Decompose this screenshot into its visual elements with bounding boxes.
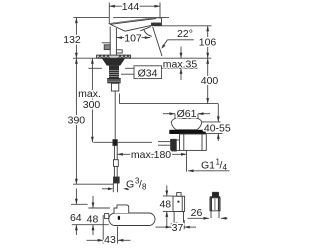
svg-text:37: 37 <box>172 222 184 234</box>
svg-text:Ø34: Ø34 <box>138 67 158 79</box>
svg-text:400: 400 <box>201 75 219 87</box>
svg-text:4: 4 <box>223 163 228 172</box>
svg-text:390: 390 <box>68 114 86 126</box>
svg-text:43: 43 <box>104 234 116 246</box>
svg-text:144: 144 <box>122 1 140 13</box>
svg-text:22°: 22° <box>177 28 193 40</box>
svg-text:8: 8 <box>142 183 147 192</box>
svg-text:132: 132 <box>63 34 81 46</box>
svg-text:max.180: max.180 <box>131 149 171 161</box>
svg-text:40-55: 40-55 <box>204 123 231 135</box>
svg-text:300: 300 <box>83 99 101 111</box>
svg-text:48: 48 <box>87 214 99 226</box>
svg-text:106: 106 <box>199 37 217 49</box>
svg-text:G1: G1 <box>201 160 215 172</box>
svg-text:64: 64 <box>70 212 82 224</box>
svg-text:48: 48 <box>159 199 171 211</box>
svg-text:G: G <box>126 179 134 191</box>
svg-text:max.35: max.35 <box>163 58 198 70</box>
svg-text:107: 107 <box>124 32 142 44</box>
svg-text:26: 26 <box>191 207 203 219</box>
svg-text:Ø61: Ø61 <box>177 108 197 120</box>
